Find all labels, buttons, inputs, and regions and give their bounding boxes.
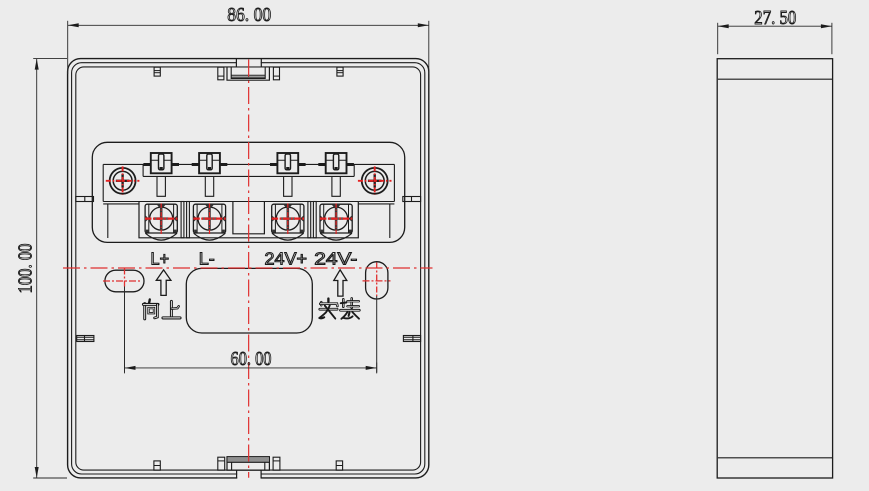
dimension 100.00 [33, 58, 67, 60]
channel separator bars right pair [308, 202, 311, 238]
bottom left small tab [154, 461, 160, 470]
terminal channel [139, 202, 358, 238]
svg-text:L-: L- [199, 248, 215, 268]
terminal screw 1 [145, 233, 177, 240]
dimension 60.00 [125, 367, 377, 369]
bottom right small tab [336, 461, 342, 470]
bottom center cutout [237, 471, 260, 480]
svg-text:24V-: 24V- [314, 248, 357, 268]
left slot extension line [124, 287, 126, 373]
enclosure middle outline [72, 63, 425, 474]
contact rail thick segments [143, 163, 150, 166]
channel separator bars left pair [181, 202, 184, 238]
side view top cap line [718, 78, 832, 80]
housing screw right [362, 168, 388, 194]
wire clamp 4 [326, 153, 347, 173]
top center recess inner [231, 67, 265, 78]
terminal screw 4 [320, 233, 352, 240]
dimension 86.00 [67, 21, 69, 74]
left lower tab [77, 336, 94, 342]
terminal screw 2 [194, 233, 226, 240]
enclosure inner outline [76, 67, 421, 470]
up arrow right [334, 270, 347, 296]
horizontal centerline [63, 267, 433, 269]
lower pocket wall right [389, 204, 391, 238]
rail step left [142, 164, 144, 176]
top inner left tab [218, 67, 224, 80]
wire clamp 3 [277, 153, 298, 173]
right bridge tab [403, 197, 421, 202]
svg-text:L+: L+ [151, 248, 170, 268]
channel center recess [233, 202, 265, 234]
bottom center tab [227, 457, 269, 471]
housing inner wall right [393, 164, 395, 201]
housing inner wall left [102, 164, 104, 201]
vertical centerline [248, 60, 250, 478]
right slot extension line [376, 296, 378, 373]
dimension 27.50 [717, 23, 719, 54]
svg-text:60. 00: 60. 00 [231, 348, 272, 370]
top center recess outer [227, 67, 269, 80]
top center mounting tab [237, 60, 261, 67]
wire clamp 1 [151, 153, 172, 173]
up arrow left [156, 270, 171, 296]
right slot crosshair [363, 280, 391, 282]
svg-text:86. 00: 86. 00 [227, 4, 271, 26]
top inner right tab [273, 67, 279, 80]
left bridge tab [76, 197, 94, 202]
left mounting slot [105, 270, 144, 292]
housing screw left [110, 168, 136, 194]
svg-text:100. 00: 100. 00 [14, 244, 36, 294]
svg-text:24V+: 24V+ [265, 248, 308, 268]
bottom inner right tab [273, 457, 280, 470]
lower pocket wall left [107, 204, 109, 238]
side view body [717, 59, 832, 478]
wire clamp 2 [199, 153, 220, 173]
top left small tab [154, 67, 160, 76]
terminal screw 3 [272, 233, 304, 240]
text 安装 (install) [327, 299, 329, 302]
top right small tab [337, 67, 343, 76]
rail bottom line [143, 175, 354, 177]
contact rail thin line [103, 163, 394, 165]
bottom inner left tab [218, 457, 225, 470]
svg-text:27. 50: 27. 50 [754, 7, 796, 29]
terminal housing outline [92, 142, 404, 242]
shelf lines left [103, 201, 139, 203]
right lower tab [403, 336, 420, 342]
left slot crosshair [103, 280, 141, 282]
enclosure outer outline [68, 59, 429, 478]
shelf lines right [358, 201, 394, 203]
rail step right [353, 164, 355, 176]
text 向上 (upward) [148, 299, 151, 303]
side view bottom cap line [718, 457, 832, 459]
right mounting slot [366, 262, 388, 299]
bottom center tab inner [231, 462, 233, 470]
center label recess [186, 268, 312, 333]
rail legs [157, 176, 165, 196]
